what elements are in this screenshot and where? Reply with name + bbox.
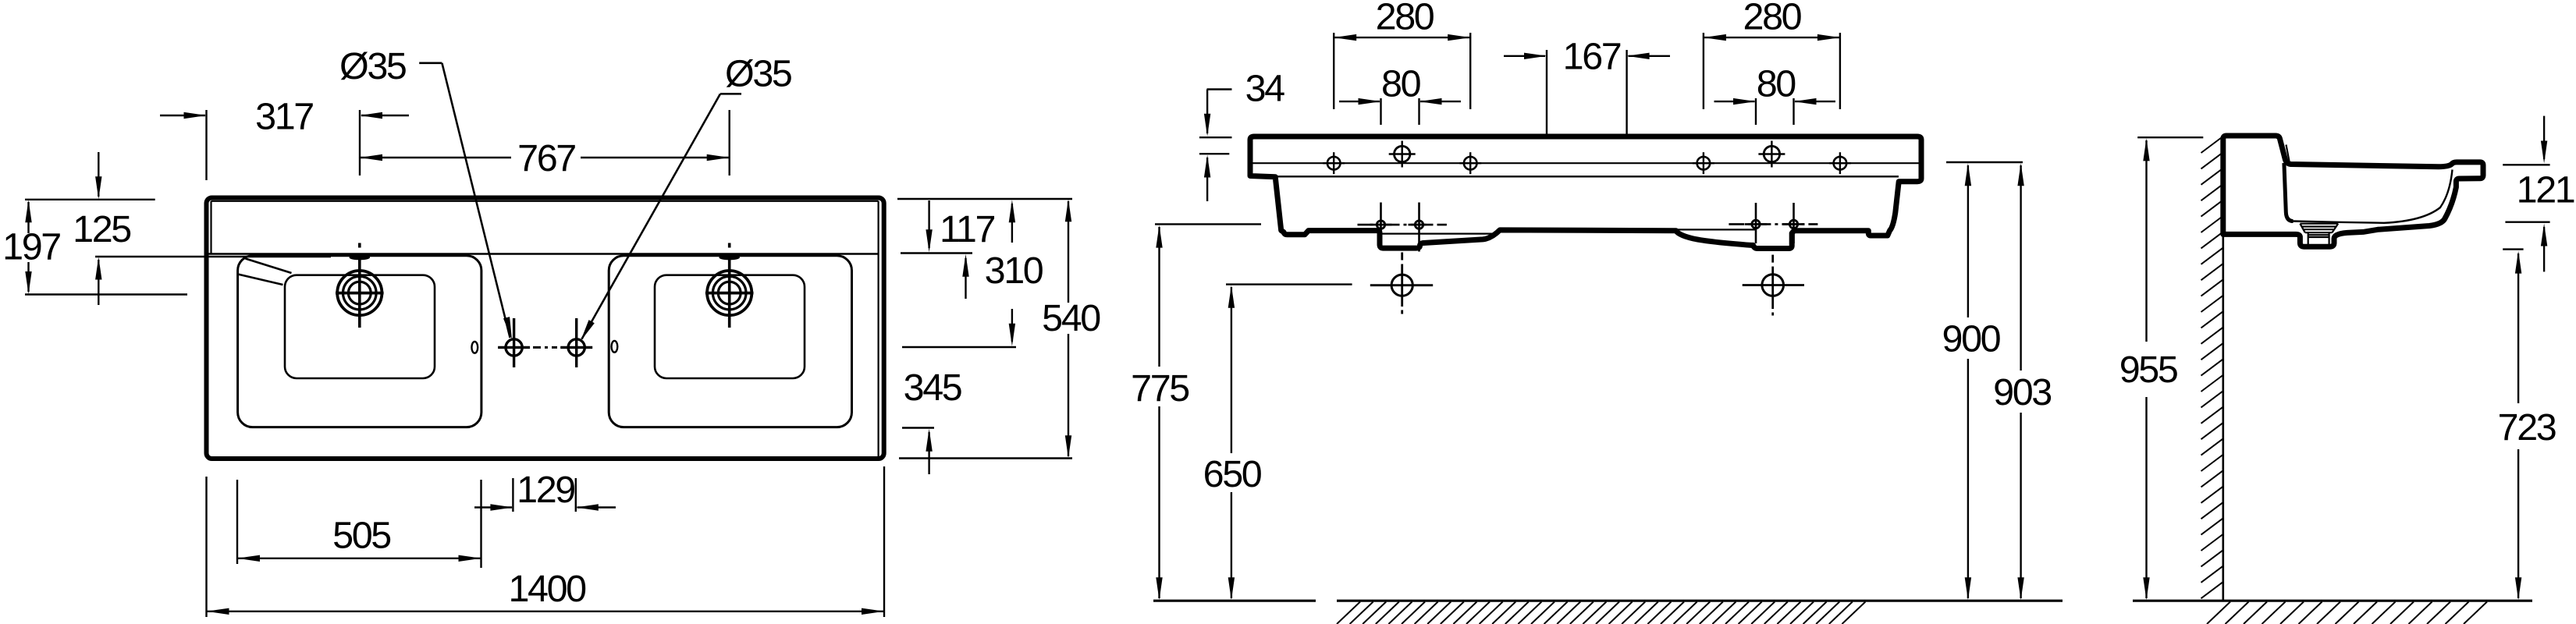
front view: apron bottom edge bbox=[1275, 175, 1899, 177]
front view: left hanger bolts bbox=[1380, 203, 1382, 245]
top view: faucet hole group at x=934.7 bbox=[707, 271, 751, 315]
svg-text:280: 280 bbox=[1376, 0, 1434, 38]
front view: underside line left drain bbox=[1380, 233, 1494, 235]
dimensions 505 129 1400 below top view bbox=[205, 477, 207, 617]
svg-text:280: 280 bbox=[1743, 0, 1802, 38]
side view: drain pipe bbox=[2308, 232, 2329, 245]
svg-text:775: 775 bbox=[1131, 367, 1189, 409]
svg-text:125: 125 bbox=[73, 208, 130, 250]
svg-text:197: 197 bbox=[2, 226, 60, 268]
top view: left bowl inner basin rect bbox=[285, 275, 435, 378]
svg-text:723: 723 bbox=[2498, 406, 2556, 448]
top view: washbasin outer rim (1400x540) bbox=[207, 198, 884, 459]
front view: basin outline bbox=[1250, 136, 1921, 249]
dimension 767 bbox=[729, 110, 730, 175]
dimension 650 bbox=[1226, 283, 1352, 285]
front view: fixing hole at x=1884.2 bbox=[1464, 157, 1477, 170]
svg-text:310: 310 bbox=[985, 250, 1043, 292]
dimension 280 right bbox=[1703, 33, 1704, 109]
svg-text:317: 317 bbox=[255, 96, 313, 138]
side view: deck front edge inner line bbox=[2286, 145, 2290, 161]
dimension 34 bbox=[1207, 88, 1232, 90]
top view: right overflow slot bbox=[612, 341, 618, 353]
svg-text:129: 129 bbox=[517, 469, 574, 511]
svg-text:167: 167 bbox=[1563, 36, 1621, 78]
front view: faucet hole at x=2270.4 bbox=[1764, 146, 1779, 161]
side view: basin profile bbox=[2223, 136, 2483, 246]
svg-text:505: 505 bbox=[332, 515, 390, 557]
svg-text:767: 767 bbox=[517, 137, 575, 179]
svg-text:121: 121 bbox=[2517, 169, 2574, 211]
top view: left bowl ramp edge lower bbox=[238, 275, 283, 285]
dimension 125 / 197 left side bbox=[25, 199, 155, 200]
front view: fixing hole at x=2182.9 bbox=[1697, 157, 1711, 170]
svg-text:Ø35: Ø35 bbox=[339, 45, 406, 87]
side view: drain flange bbox=[2300, 224, 2338, 233]
top view: right bowl inner basin rect bbox=[655, 275, 805, 378]
side view: bowl interior bottom and front wall bbox=[2294, 170, 2453, 223]
side view: wall hatching bbox=[2201, 136, 2223, 598]
dimension 121 bbox=[2503, 164, 2549, 165]
svg-text:1400: 1400 bbox=[508, 568, 586, 610]
svg-text:80: 80 bbox=[1381, 63, 1421, 105]
dimension 80 right bbox=[1755, 98, 1757, 125]
svg-text:903: 903 bbox=[1993, 371, 2051, 413]
top view: right bowl outline bbox=[609, 256, 851, 427]
dimension 775 bbox=[1155, 223, 1261, 225]
svg-text:34: 34 bbox=[1245, 68, 1285, 110]
front view: right hanger bolts bbox=[1755, 203, 1757, 243]
dimension 167 bbox=[1546, 50, 1547, 135]
side view: floor line bbox=[2133, 600, 2532, 602]
svg-text:117: 117 bbox=[940, 208, 995, 250]
dimension 955 bbox=[2137, 136, 2203, 138]
front view: floor hatching bbox=[1337, 602, 1865, 624]
svg-text:Ø35: Ø35 bbox=[725, 53, 791, 95]
top view: faucet hole group at x=460.8 bbox=[337, 271, 382, 315]
svg-text:80: 80 bbox=[1757, 63, 1796, 105]
svg-text:345: 345 bbox=[904, 367, 961, 409]
dimensions 117 310 540 345 right side of top view bbox=[897, 198, 1072, 200]
top view: deck line bbox=[209, 253, 879, 254]
top view: left bowl ramp edge upper bbox=[246, 259, 292, 274]
dimension 903 bbox=[2020, 165, 2021, 370]
dimension 280 left bbox=[1333, 33, 1334, 109]
front view: left drain centre bbox=[1391, 275, 1412, 296]
top view: deck line extension to left bbox=[95, 256, 331, 257]
top view: inner edge offset lines bbox=[211, 200, 879, 202]
dimension 900 bbox=[1946, 161, 2023, 163]
front view: right drain centre bbox=[1762, 275, 1784, 296]
dimension 80 left bbox=[1380, 98, 1381, 125]
top view: left bowl outline bbox=[238, 256, 481, 427]
top view: centre tap hole O35 at x=658.6 bbox=[506, 339, 522, 356]
dimension 317 bbox=[205, 110, 207, 180]
front view: fixing hole at x=1709.2 bbox=[1327, 157, 1341, 170]
dimension 723 bbox=[2503, 248, 2523, 250]
front view: faucet hole at x=1796.7 bbox=[1395, 146, 1410, 161]
front view: underside line right drain bbox=[1652, 229, 1755, 230]
svg-text:650: 650 bbox=[1203, 453, 1262, 495]
top view: left overflow slot bbox=[471, 342, 478, 353]
svg-text:955: 955 bbox=[2119, 349, 2177, 391]
top view: dash-dot link between centre holes bbox=[533, 346, 557, 349]
front view: floor line bbox=[1153, 600, 1316, 602]
front view: mounting-hole line across apron bbox=[1252, 162, 1920, 164]
svg-text:540: 540 bbox=[1042, 297, 1100, 339]
top view: centre tap hole O35 at x=738.7 bbox=[568, 339, 584, 356]
side view: wall line bbox=[2222, 136, 2225, 601]
svg-text:900: 900 bbox=[1942, 318, 2001, 360]
side view: bowl interior back wall bbox=[2284, 163, 2294, 222]
side view: floor hatching bbox=[2207, 602, 2487, 624]
front view: fixing hole at x=2357.9 bbox=[1834, 157, 1847, 170]
